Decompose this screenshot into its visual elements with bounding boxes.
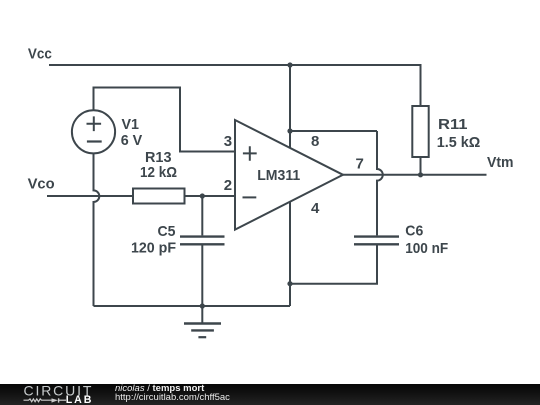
wire pin 8 branch to C6 column xyxy=(290,130,377,132)
wire pin 4 down xyxy=(289,202,291,306)
capacitor C5 xyxy=(180,237,225,245)
svg-text:12 kΩ: 12 kΩ xyxy=(140,164,177,181)
wire pin 8 from Vcc rail xyxy=(289,65,291,148)
op-amp plus input symbol xyxy=(243,146,257,161)
svg-text:120 pF: 120 pF xyxy=(131,240,176,257)
wire C6 column with hop over output xyxy=(377,131,383,235)
svg-text:Vcc: Vcc xyxy=(28,46,52,63)
svg-text:4: 4 xyxy=(311,200,320,217)
junction dot output/R11 xyxy=(418,172,423,177)
wire Vco to R13 xyxy=(47,195,133,197)
V1 plus sign xyxy=(87,116,102,131)
junction dot pin2/C5 xyxy=(200,193,205,198)
logo line to LAB xyxy=(59,399,66,401)
op-amp U1 LM311 triangle xyxy=(235,120,343,230)
svg-text:C5: C5 xyxy=(158,223,176,240)
resistor R11 xyxy=(412,106,428,157)
svg-text:C6: C6 xyxy=(405,223,423,240)
wire C5 top stem xyxy=(201,196,203,235)
logo diode bar xyxy=(58,398,60,402)
svg-text:2: 2 xyxy=(224,177,232,194)
junction dot Vcc/pin8 xyxy=(287,62,292,67)
wire R13 to pin 2 xyxy=(185,195,236,197)
CircuitLab logo xyxy=(0,384,110,405)
svg-text:3: 3 xyxy=(224,133,232,150)
footer credit text xyxy=(114,383,116,385)
svg-text:V1: V1 xyxy=(122,116,140,133)
svg-text:R11: R11 xyxy=(438,116,468,133)
wire R11 bottom to output node xyxy=(420,157,422,175)
svg-text:Vco: Vco xyxy=(28,176,55,193)
logo diode triangle xyxy=(52,398,59,402)
V1 minus sign xyxy=(87,140,102,142)
svg-text:6 V: 6 V xyxy=(121,132,143,149)
junction dot ground rail xyxy=(200,303,205,308)
logo resistor zigzag doodle xyxy=(24,399,52,402)
junction dot pin4/C6 xyxy=(287,281,292,286)
wire V1 top to pin 3 xyxy=(94,88,236,152)
wire Vcc rail xyxy=(49,65,421,106)
footer bar xyxy=(0,384,540,405)
svg-text:LAB: LAB xyxy=(66,394,93,405)
wire ground rail xyxy=(94,305,291,307)
svg-text:1.5 kΩ: 1.5 kΩ xyxy=(437,134,481,151)
svg-text:8: 8 xyxy=(311,133,319,150)
wire V1 bottom to ground rail (hop over Vco) xyxy=(94,153,100,306)
op-amp minus input symbol xyxy=(243,196,257,198)
wire C6 bottom to pin 4 node xyxy=(290,246,377,284)
svg-text:100 nF: 100 nF xyxy=(405,240,448,257)
resistor R13 xyxy=(133,189,185,204)
capacitor C6 xyxy=(354,237,399,245)
svg-text:LM311: LM311 xyxy=(257,167,300,184)
voltage source V1 xyxy=(72,110,115,153)
svg-text:7: 7 xyxy=(356,156,364,173)
wire output pin 7 to Vtm xyxy=(343,174,487,176)
wire C5 bottom stem xyxy=(201,246,203,307)
ground symbol xyxy=(184,306,221,337)
junction dot pin8 branch xyxy=(287,128,292,133)
svg-text:Vtm: Vtm xyxy=(487,154,514,171)
